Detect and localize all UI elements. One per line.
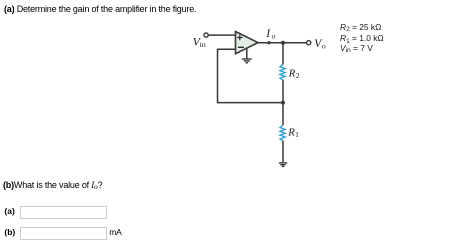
resistor R2 — [280, 64, 285, 80]
svg-text:1: 1 — [295, 130, 299, 139]
question (a) text — [4, 5, 196, 14]
svg-text:2: 2 — [296, 71, 300, 80]
wire output node down to R2 — [282, 43, 284, 65]
wire junction down to R1 — [282, 103, 284, 126]
node Vin terminal — [204, 33, 208, 37]
ground (op-amp) — [242, 48, 252, 63]
wire feedback vertical — [217, 49, 219, 104]
given values text — [340, 23, 381, 33]
ground (bottom) — [279, 163, 287, 167]
svg-text:o: o — [322, 42, 326, 51]
answer label (a) — [4, 207, 14, 216]
wire Vin to op-amp + input — [208, 34, 236, 36]
answer box (b) — [20, 227, 107, 240]
wire feedback to junction — [218, 102, 284, 104]
unit label mA — [109, 228, 121, 237]
wire R1 to ground — [282, 141, 284, 163]
wire feedback from - input (left) — [218, 48, 237, 50]
node junction output/R2 — [281, 41, 285, 45]
wire op-amp output to Vo — [258, 42, 307, 44]
svg-text:R: R — [288, 67, 296, 79]
svg-text:I: I — [265, 28, 271, 40]
svg-text:o: o — [272, 32, 276, 41]
answer label (b) — [4, 228, 15, 237]
node Vo terminal — [307, 41, 311, 45]
svg-text:in: in — [200, 40, 206, 49]
svg-text:R: R — [287, 127, 295, 139]
op-amp U1 — [236, 32, 259, 54]
question (b) text — [3, 181, 102, 191]
answer box (a) — [20, 206, 107, 219]
resistor R1 — [280, 125, 285, 141]
wire R2 to junction — [282, 80, 284, 103]
node junction R2/R1/feedback — [281, 101, 285, 105]
node Io measuring dot — [267, 41, 270, 44]
